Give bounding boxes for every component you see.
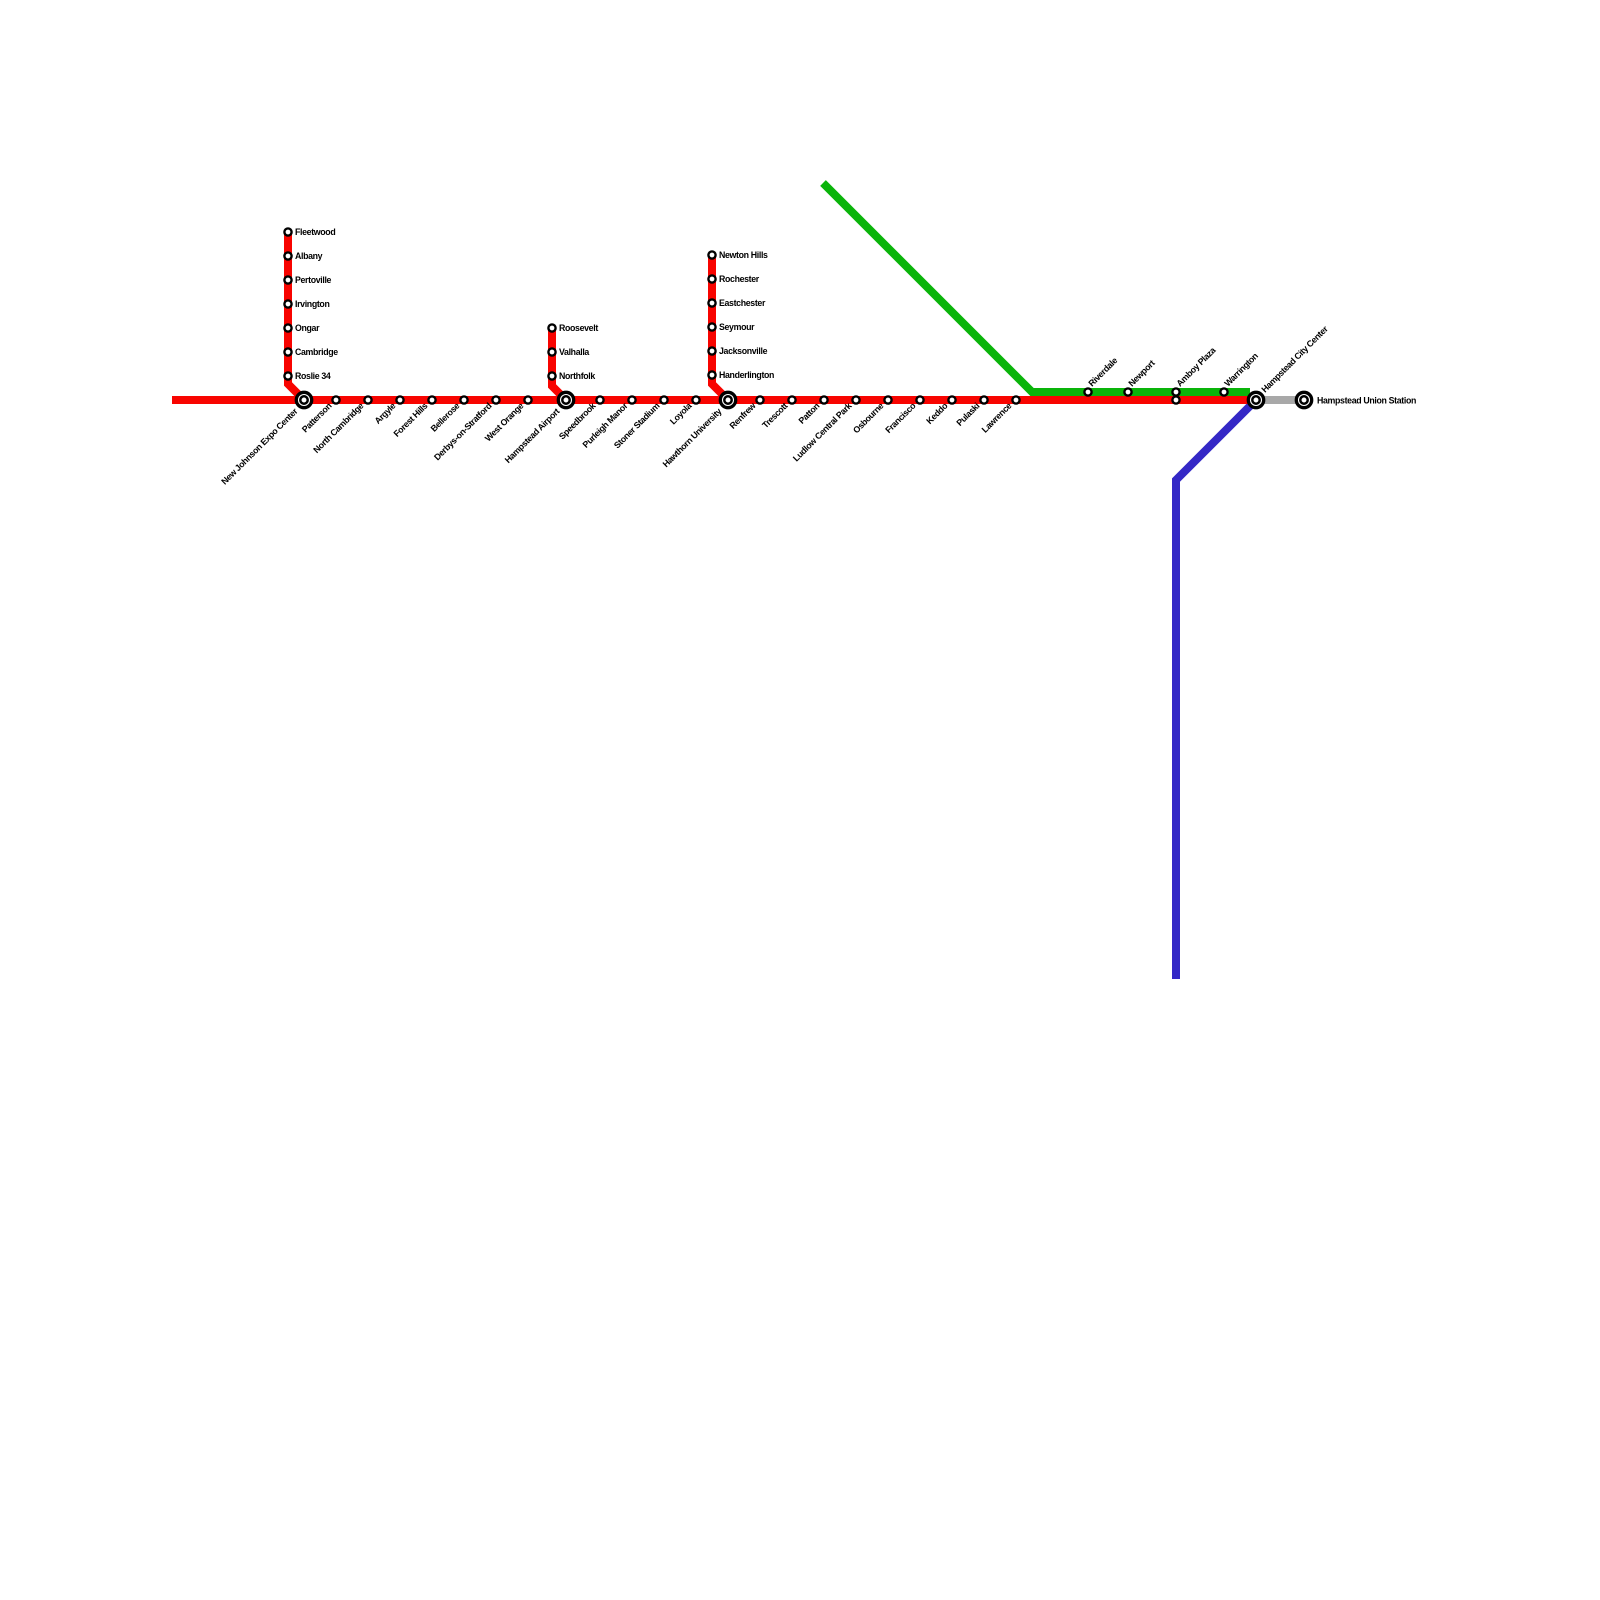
station Keddo marker xyxy=(948,396,955,403)
station Pulaski marker xyxy=(980,396,987,403)
svg-text:Newton Hills: Newton Hills xyxy=(719,250,768,260)
red line: Roosevelt branch xyxy=(552,328,566,400)
station Eastchester marker xyxy=(708,299,715,306)
station Rochester marker xyxy=(708,275,715,282)
station Newport marker xyxy=(1124,388,1131,395)
station Bellerose marker xyxy=(460,396,467,403)
station North Cambridge marker xyxy=(364,396,371,403)
station Derbys-on-Stratford marker xyxy=(492,396,499,403)
svg-text:Pertoville: Pertoville xyxy=(295,275,332,285)
interchange Hawthorn University marker xyxy=(720,392,735,407)
station West Orange marker xyxy=(524,396,531,403)
svg-text:Valhalla: Valhalla xyxy=(559,347,589,357)
station Argyle marker xyxy=(396,396,403,403)
station Speedbrook marker xyxy=(596,396,603,403)
station Cambridge marker xyxy=(284,348,291,355)
svg-text:Fleetwood: Fleetwood xyxy=(295,227,335,237)
svg-text:Eastchester: Eastchester xyxy=(719,298,766,308)
station Handerlington marker xyxy=(708,371,715,378)
station Northfolk marker xyxy=(548,372,555,379)
station Fleetwood marker xyxy=(284,228,291,235)
green line xyxy=(823,183,1250,392)
station Renfrew marker xyxy=(756,396,763,403)
station Valhalla marker xyxy=(548,348,555,355)
svg-text:Jacksonville: Jacksonville xyxy=(719,346,768,356)
station Newton Hills marker xyxy=(708,251,715,258)
station Ludlow Central Park marker xyxy=(852,396,859,403)
interchange Hampstead Airport marker xyxy=(558,392,573,407)
svg-text:Cambridge: Cambridge xyxy=(295,347,338,357)
interchange Hampstead Union Station marker xyxy=(1296,392,1311,407)
station Roslie 34 marker xyxy=(284,372,291,379)
station Warrington marker xyxy=(1220,388,1227,395)
station Francisco marker xyxy=(916,396,923,403)
station Irvington marker xyxy=(284,300,291,307)
station Pertoville marker xyxy=(284,276,291,283)
station Patterson marker xyxy=(332,396,339,403)
red line: Fleetwood branch xyxy=(288,232,304,400)
interchange New Johnson Expo Center marker xyxy=(296,392,311,407)
station Albany marker xyxy=(284,252,291,259)
svg-text:Handerlington: Handerlington xyxy=(719,370,774,380)
station Osbourne marker xyxy=(884,396,891,403)
station Stoner Stadium marker xyxy=(660,396,667,403)
station Patton marker xyxy=(820,396,827,403)
station Ongar marker xyxy=(284,324,291,331)
station Amboy Plaza marker xyxy=(1172,388,1179,395)
svg-text:Ongar: Ongar xyxy=(295,323,320,333)
svg-text:Irvington: Irvington xyxy=(295,299,329,309)
red line: Newton Hills branch xyxy=(712,255,728,400)
svg-text:Rochester: Rochester xyxy=(719,274,760,284)
svg-text:Seymour: Seymour xyxy=(719,322,755,332)
station Trescott marker xyxy=(788,396,795,403)
station Loyola marker xyxy=(692,396,699,403)
red line: main trunk xyxy=(172,396,1256,404)
svg-text:Roosevelt: Roosevelt xyxy=(559,323,598,333)
station Amboy Plaza (red) marker xyxy=(1172,396,1179,403)
svg-text:Hampstead Union Station: Hampstead Union Station xyxy=(1317,395,1416,405)
station Jacksonville marker xyxy=(708,347,715,354)
station Lawrence marker xyxy=(1012,396,1019,403)
station Riverdale marker xyxy=(1084,388,1091,395)
interchange Hampstead City Center marker xyxy=(1248,392,1263,407)
gray shuttle line to Hampstead Union Station xyxy=(1256,396,1304,404)
station Purleigh Manor marker xyxy=(628,396,635,403)
station Forest Hills marker xyxy=(428,396,435,403)
blue line xyxy=(1176,400,1256,979)
station Roosevelt marker xyxy=(548,324,555,331)
svg-text:Albany: Albany xyxy=(295,251,323,261)
svg-text:Roslie 34: Roslie 34 xyxy=(295,371,331,381)
station Seymour marker xyxy=(708,323,715,330)
svg-text:Northfolk: Northfolk xyxy=(559,371,595,381)
